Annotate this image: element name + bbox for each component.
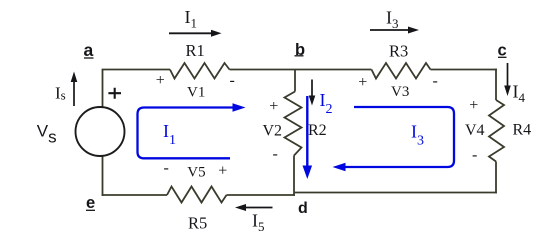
- blue mesh loop I1: [138, 108, 234, 159]
- wire R2 to node d: [293, 156, 295, 196]
- wire R5 to node e corner: [102, 194, 167, 196]
- svg-text:I3: I3: [411, 122, 424, 149]
- resistor R2: [285, 92, 302, 156]
- wire R4 to bottom right corner: [495, 162, 497, 194]
- arrow I1 top: [169, 30, 222, 37]
- svg-text:-: -: [230, 72, 235, 89]
- svg-text:-: -: [433, 73, 438, 90]
- svg-text:R1: R1: [186, 41, 205, 60]
- wire R1 to node b: [230, 69, 296, 71]
- resistor R1: [170, 63, 230, 79]
- arrow I2 (node b): [309, 80, 316, 106]
- wire node a vertical (source top to top wire): [102, 70, 104, 108]
- svg-text:V3: V3: [391, 84, 409, 100]
- wire bottom right: corner to node d: [295, 192, 497, 194]
- svg-text:-: -: [273, 146, 278, 163]
- svg-text:+: +: [156, 72, 165, 89]
- arrow Is: [71, 72, 78, 107]
- node b: [295, 41, 306, 59]
- svg-text:I5: I5: [252, 211, 265, 235]
- wire bottom left: node d to R5: [227, 194, 295, 196]
- svg-text:-: -: [164, 160, 169, 177]
- svg-text:I1: I1: [163, 121, 176, 148]
- svg-text:e: e: [86, 194, 95, 212]
- svg-text:R3: R3: [389, 42, 408, 61]
- wire node c down to R4: [495, 69, 497, 100]
- wire node e vertical (source bottom to bottom wire): [102, 157, 104, 196]
- wire node b down to R2: [294, 70, 296, 92]
- svg-text:a: a: [84, 40, 94, 60]
- resistor R3: [372, 63, 431, 79]
- svg-text:V5: V5: [187, 165, 205, 181]
- svg-text:V2: V2: [263, 123, 283, 140]
- blue mesh loop I3: [345, 107, 454, 167]
- node c: [498, 41, 507, 59]
- svg-text:I3: I3: [386, 8, 399, 32]
- arrow I5: [235, 204, 273, 211]
- resistor R4: [489, 100, 504, 162]
- svg-text:+: +: [269, 98, 278, 115]
- svg-text:V4: V4: [465, 122, 485, 139]
- arrow I4: [504, 63, 511, 96]
- voltage source Vs circle: [76, 107, 125, 156]
- plus polarity of source: [108, 88, 121, 99]
- resistor R5: [167, 187, 227, 203]
- svg-text:Is: Is: [55, 84, 66, 103]
- svg-text:Vs: Vs: [37, 122, 57, 147]
- svg-text:d: d: [298, 200, 308, 217]
- svg-text:I1: I1: [185, 7, 198, 31]
- svg-text:+: +: [218, 163, 227, 180]
- svg-text:R2: R2: [308, 122, 327, 139]
- arrow I3 top: [370, 27, 419, 34]
- svg-text:+: +: [469, 97, 478, 114]
- wire node b to R3: [295, 69, 372, 71]
- svg-text:V1: V1: [187, 85, 205, 101]
- svg-text:R5: R5: [188, 214, 207, 233]
- svg-text:I2: I2: [320, 90, 333, 117]
- node e: [86, 194, 95, 212]
- blue arrow through R2: [303, 96, 313, 179]
- wire R3 to node c corner: [431, 69, 497, 71]
- svg-text:R4: R4: [513, 122, 532, 139]
- wire top left: a corner to R1: [102, 69, 170, 71]
- node a: [84, 40, 94, 60]
- svg-text:I4: I4: [513, 82, 526, 106]
- svg-text:+: +: [358, 74, 367, 91]
- svg-text:-: -: [472, 147, 477, 164]
